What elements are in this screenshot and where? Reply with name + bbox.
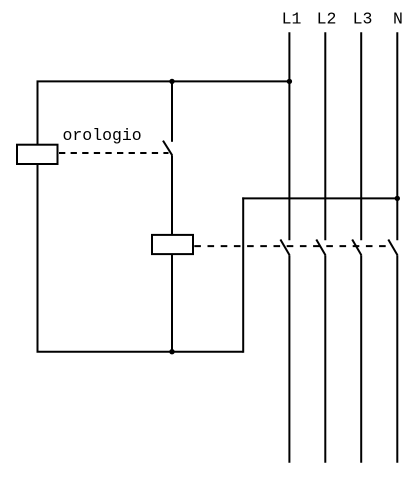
contactor coil (152, 235, 193, 254)
contactor main contact on N (NO, blade) (388, 240, 397, 256)
junction dot: top bus / L1 (287, 79, 292, 84)
contactor main contact on L1 (NO, blade) (280, 240, 289, 256)
wire: phase line L1 lower segment (288, 255, 290, 463)
wire: neutral line N lower segment (396, 255, 398, 463)
junction dot: bottom bus / middle branch (169, 349, 174, 354)
contactor main contact on L2 (NO, blade) (316, 240, 325, 256)
wire: right vertical branch to neutral bus (242, 197, 244, 352)
wire: phase line L3 upper segment (360, 32, 362, 240)
contactor main contact on L3 (NO, blade) (352, 240, 361, 256)
clock relay coil (orologio) (17, 145, 58, 164)
wire: phase line L2 upper segment (324, 32, 326, 240)
svg-text:L1: L1 (282, 10, 302, 29)
wire: phase line L3 lower segment (360, 255, 362, 463)
junction dot: top bus / middle branch (169, 79, 174, 84)
clock (orologio) contact, NO blade (163, 141, 172, 156)
junction dot: neutral bus / N (395, 196, 400, 201)
wire: middle vertical branch lower segment (through contactor coil to bottom bus) (171, 155, 173, 351)
wire: top horizontal bus from left branch to L1 (37, 80, 290, 82)
mechanical link (dashed) from contactor coil to main contacts (194, 245, 390, 247)
svg-text:L2: L2 (317, 10, 337, 29)
wire: left vertical branch (through clock coil) (37, 81, 39, 351)
svg-text:L3: L3 (353, 10, 373, 29)
wire: horizontal neutral bus to N (242, 197, 397, 199)
wire: neutral line N upper segment (396, 32, 398, 240)
wire: middle vertical branch upper segment (to clock contact) (171, 81, 173, 141)
wire: phase line L1 upper segment (288, 32, 290, 240)
svg-text:N: N (393, 10, 403, 29)
wire: bottom horizontal bus (37, 351, 244, 353)
wire: phase line L2 lower segment (324, 255, 326, 463)
svg-text:orologio: orologio (63, 126, 142, 145)
mechanical link (dashed) from clock coil to clock contact (59, 152, 169, 154)
